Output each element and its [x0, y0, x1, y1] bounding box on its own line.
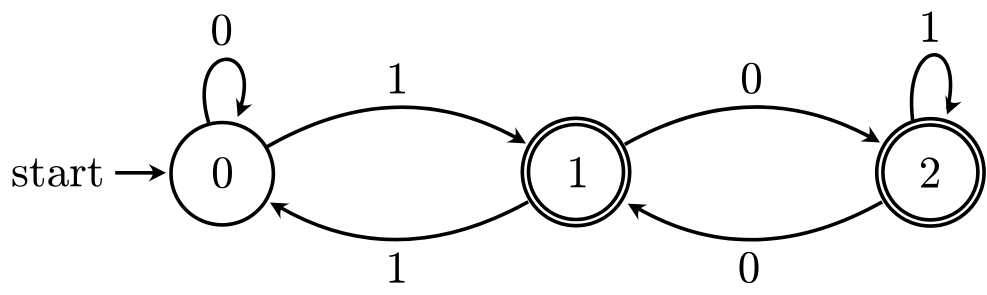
self-loop on state 2: [912, 55, 962, 120]
edge 0 to 1: [268, 107, 531, 151]
self-loop 0 label "0": [212, 14, 231, 45]
state 1 (accepting, double circle): [522, 118, 629, 225]
start label: [13, 158, 102, 186]
edge 1-2 label "0": [742, 63, 761, 94]
edge 1 to 2: [625, 107, 885, 150]
start arrow: [115, 164, 166, 182]
self-loop on state 0: [204, 59, 252, 123]
state 1 label "1": [570, 157, 585, 187]
edge 0-1 label "1": [390, 63, 405, 93]
state 0: [171, 123, 273, 225]
edge 1 to 0 (bottom): [266, 195, 529, 240]
self-loop 2 label "1": [923, 12, 938, 42]
edge 2-1 label "0": [739, 252, 758, 283]
edge 1-0 label "1": [389, 252, 404, 282]
state 2 (accepting, double circle): [877, 119, 984, 226]
state 2 label "2": [921, 157, 939, 187]
edge 2 to 1 (bottom): [623, 196, 882, 240]
state 0 label "0": [213, 157, 232, 188]
